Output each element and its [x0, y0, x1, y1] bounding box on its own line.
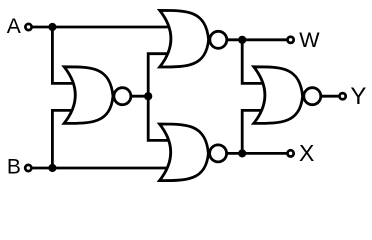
- junction node on W wire: [238, 36, 246, 44]
- wire: U4 output to Y terminal: [320, 95, 343, 98]
- wire: node J down to U3 top input: [148, 96, 172, 140]
- NOR gate U4 bubble: [304, 88, 321, 105]
- NOR gate U1 body (left): [64, 67, 113, 124]
- junction node on B: [48, 164, 56, 172]
- NOR gate U4 body (right): [254, 67, 303, 124]
- svg-text:B: B: [7, 156, 21, 179]
- wire: input B horizontal: [28, 167, 171, 170]
- wire: B branch up to U1 bottom input: [52, 110, 76, 168]
- wire: U3 output to X terminal: [226, 152, 291, 155]
- terminal W: [288, 37, 294, 43]
- NOR gate U3 bubble: [210, 145, 227, 162]
- svg-text:A: A: [7, 15, 21, 38]
- junction node on A: [48, 23, 56, 31]
- wire: node J up to U2 bottom input: [148, 54, 172, 96]
- wire: A branch down to U1 top input: [52, 27, 76, 83]
- terminal Y: [340, 93, 346, 99]
- NOR gate U1 bubble: [114, 88, 131, 105]
- terminal B: [25, 165, 31, 171]
- svg-text:Y: Y: [350, 83, 366, 110]
- wire: U2 output to W terminal: [226, 38, 291, 41]
- NOR gate U3 body (bottom): [160, 124, 209, 181]
- wire: U1 output to node J: [130, 95, 148, 98]
- wire: X node up to U4 bottom input: [242, 110, 266, 153]
- svg-text:W: W: [299, 28, 320, 52]
- wire: input A horizontal: [29, 26, 169, 29]
- NOR gate U2 bubble: [210, 31, 227, 48]
- NOR gate U2 body (top): [160, 10, 209, 67]
- svg-text:X: X: [299, 140, 314, 166]
- terminal X: [288, 150, 294, 156]
- junction node on X wire: [238, 149, 246, 157]
- junction node J after U1: [144, 92, 152, 100]
- wire: W node down to U4 top input: [242, 40, 266, 84]
- terminal A: [25, 24, 31, 30]
